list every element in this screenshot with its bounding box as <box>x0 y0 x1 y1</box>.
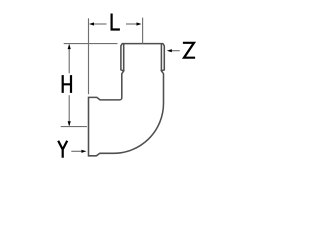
H dimension line lower segment <box>68 95 70 125</box>
Y arrow tail <box>71 150 81 152</box>
L right extension line (vertical port centerline) <box>142 18 144 44</box>
L left arrowhead <box>89 22 94 25</box>
arrowheads <box>68 22 172 153</box>
label H <box>63 75 71 93</box>
Z arrowhead <box>167 49 172 52</box>
outer profile: top face, right socket wall, right taper, right body wall, outer bend arc, body bottom, left socket, end face <box>89 44 165 156</box>
top socket bore line right <box>160 44 162 71</box>
elbow fitting outline <box>89 44 165 156</box>
H top arrowhead <box>68 44 71 49</box>
Y arrowhead <box>81 150 86 153</box>
Z arrow tail <box>172 50 180 52</box>
L dimension right arrow tail <box>126 23 138 25</box>
H dimension line upper segment <box>68 45 70 74</box>
label Z <box>183 43 195 58</box>
dimension and extension lines <box>61 18 180 152</box>
labels drawn as strokes (grayscale, narrow gothic style) <box>58 14 195 158</box>
label Y <box>58 141 67 158</box>
H top extension line <box>64 43 118 45</box>
L dimension left arrow tail <box>93 23 107 25</box>
label L <box>112 14 120 30</box>
top socket bore line left <box>123 44 125 71</box>
L left extension line (end face plane) <box>88 18 90 94</box>
H bottom arrowhead <box>68 121 71 126</box>
H bottom extension line (left port centerline) <box>61 126 87 128</box>
L right arrowhead <box>137 22 142 25</box>
